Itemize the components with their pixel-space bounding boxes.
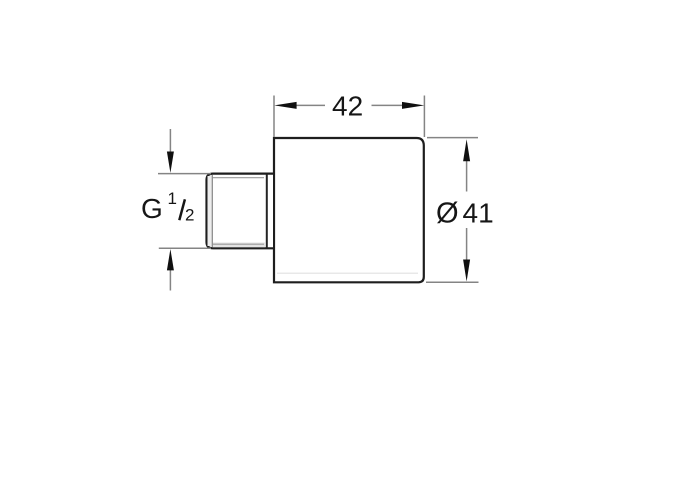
dimension line dia lower segment: [466, 228, 468, 262]
arrowhead dia down: [463, 260, 470, 282]
label G 1/2: [141, 189, 194, 225]
thread chamfer facet shading: [208, 176, 212, 246]
G dim lower tail: [169, 268, 171, 291]
svg-text:42: 42: [332, 90, 363, 121]
arrowhead G up: [167, 249, 174, 270]
arrowhead 42 left: [274, 102, 296, 109]
thread nipple outline: [207, 174, 274, 249]
extension line dia top: [427, 137, 478, 139]
thread root line bottom: [213, 243, 265, 245]
thread root line top: [213, 177, 265, 179]
thread end line: [266, 174, 268, 248]
extension line G bottom: [159, 247, 211, 249]
arrowhead G down: [167, 152, 174, 173]
dimension line 42 left segment: [296, 104, 325, 106]
svg-text:2: 2: [185, 205, 194, 224]
thread shading band bottom: [213, 243, 265, 248]
body cylinder outline: [274, 138, 424, 282]
dimension line 42 right segment: [372, 104, 404, 106]
svg-text:1: 1: [168, 189, 177, 208]
arrowhead dia up: [463, 139, 470, 161]
extension line 42 left: [273, 96, 275, 138]
label dia 41: [436, 197, 494, 229]
svg-text:G: G: [141, 193, 163, 224]
extension line 42 right: [423, 96, 425, 138]
arrowhead 42 right: [402, 102, 424, 109]
dimension line dia upper segment: [466, 160, 468, 192]
label 42: [332, 90, 363, 121]
svg-text:Ø: Ø: [436, 198, 459, 230]
extension line G top: [158, 173, 211, 175]
thread chamfer inner line: [211, 175, 213, 247]
G dim upper tail: [169, 129, 171, 153]
body shading line: [277, 272, 418, 274]
svg-text:41: 41: [463, 197, 494, 228]
extension line dia bottom: [426, 281, 479, 283]
